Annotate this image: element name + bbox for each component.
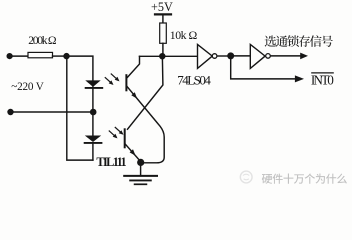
svg-text:TIL111: TIL111 bbox=[96, 155, 126, 169]
svg-text:+5V: +5V bbox=[151, 0, 173, 14]
svg-text:74LS04: 74LS04 bbox=[177, 73, 211, 88]
svg-text:~220 V: ~220 V bbox=[11, 81, 43, 93]
svg-text:INT0: INT0 bbox=[311, 72, 334, 87]
svg-text:200k Ω: 200k Ω bbox=[28, 34, 57, 47]
svg-text:10k Ω: 10k Ω bbox=[170, 28, 198, 42]
